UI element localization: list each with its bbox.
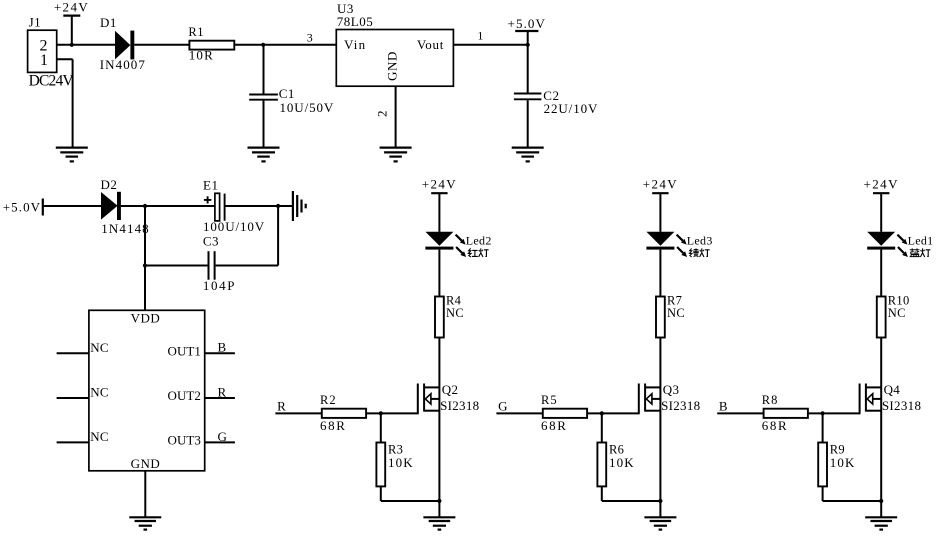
node junction C3 left bbox=[143, 263, 147, 267]
ground (U3) bbox=[380, 148, 412, 162]
node junction source/ground bbox=[879, 499, 883, 503]
wire J1 pin2 to D1 bbox=[57, 44, 115, 46]
power +5.0V terminal bbox=[3, 199, 43, 216]
svg-text:78L05: 78L05 bbox=[337, 14, 373, 29]
wire IC GND to ground bbox=[144, 471, 146, 517]
svg-text:Q4: Q4 bbox=[884, 382, 901, 397]
node junction gate/pulldown bbox=[379, 411, 383, 415]
ground (IC) bbox=[129, 517, 161, 529]
svg-text:+24V: +24V bbox=[864, 177, 899, 192]
svg-text:NC: NC bbox=[446, 306, 464, 320]
wire R8 to gate bbox=[808, 412, 861, 414]
svg-text:Led3: Led3 bbox=[687, 233, 713, 247]
node junction gate/pulldown bbox=[600, 411, 604, 415]
svg-text:R: R bbox=[277, 399, 286, 414]
wire junction to R3 bbox=[380, 413, 382, 442]
transistor Q2 SI2318 bbox=[418, 382, 459, 414]
wire junction to R9 bbox=[822, 413, 824, 442]
wire E1 to ground bbox=[225, 205, 292, 207]
wire LED to Rd bbox=[659, 250, 661, 297]
wire LED to Rd bbox=[880, 250, 882, 297]
wire D1 to R1 bbox=[134, 44, 189, 46]
resistor R2 bbox=[320, 393, 366, 418]
svg-text:10R: 10R bbox=[189, 48, 214, 63]
wire to ground bbox=[659, 501, 661, 517]
svg-text:Led2: Led2 bbox=[466, 233, 492, 247]
svg-text:R2: R2 bbox=[320, 393, 337, 407]
svg-text:B: B bbox=[218, 340, 227, 355]
svg-text:R8: R8 bbox=[762, 393, 779, 407]
regulator U3 78L05 bbox=[336, 1, 453, 86]
svg-text:OUT3: OUT3 bbox=[168, 433, 201, 448]
resistor R8 bbox=[762, 393, 808, 418]
svg-text:R4: R4 bbox=[446, 293, 462, 307]
svg-text:Q3: Q3 bbox=[663, 382, 680, 397]
svg-text:+5.0V: +5.0V bbox=[508, 16, 546, 31]
svg-text:10U/50V: 10U/50V bbox=[280, 100, 335, 115]
wire R5 to gate bbox=[587, 412, 640, 414]
ground (J1) bbox=[56, 148, 88, 162]
ground (C2) bbox=[512, 148, 544, 162]
wire R9 to source rail bbox=[823, 486, 882, 501]
capacitor C1 bbox=[249, 45, 295, 148]
svg-text:D2: D2 bbox=[101, 177, 118, 192]
LED Led3 bbox=[646, 232, 674, 250]
svg-text:100U/10V: 100U/10V bbox=[203, 219, 265, 234]
wire to ground bbox=[438, 501, 440, 517]
svg-text:DC24V: DC24V bbox=[29, 72, 75, 89]
diode D2 bbox=[101, 177, 121, 220]
svg-text:SI2318: SI2318 bbox=[882, 398, 921, 413]
wire C3 to E1 right node bbox=[216, 206, 279, 266]
ground (C1) bbox=[248, 148, 280, 162]
svg-text:+5.0V: +5.0V bbox=[3, 200, 41, 215]
resistor R10 bbox=[877, 293, 910, 337]
power +24V (J1 area) bbox=[54, 0, 89, 45]
svg-text:+24V: +24V bbox=[422, 177, 457, 192]
svg-text:1N4148: 1N4148 bbox=[101, 221, 150, 236]
svg-text:68R: 68R bbox=[541, 418, 567, 433]
ground (Q3) bbox=[644, 517, 676, 529]
svg-text:104P: 104P bbox=[203, 278, 236, 293]
wire U3 GND pin 2 to ground bbox=[375, 86, 396, 147]
LED Led2 bbox=[425, 232, 453, 250]
resistor R4 bbox=[435, 293, 462, 337]
svg-text:GND: GND bbox=[384, 51, 399, 81]
svg-text:R: R bbox=[218, 384, 227, 399]
power +5.0V bbox=[508, 16, 546, 45]
node junction D2/E1/C3 bbox=[143, 204, 147, 208]
svg-text:NC: NC bbox=[90, 340, 109, 355]
transistor Q3 SI2318 bbox=[639, 382, 680, 414]
capacitor C3 bbox=[203, 234, 219, 280]
svg-text:C3: C3 bbox=[203, 234, 219, 249]
svg-text:10K: 10K bbox=[609, 455, 635, 470]
wire R1 to U3 Vin bbox=[234, 44, 336, 46]
svg-text:R1: R1 bbox=[188, 25, 204, 39]
wire R7 to drain/source rail bbox=[659, 338, 661, 502]
pin OUT2 / net R bbox=[168, 384, 235, 403]
LED Led1 bbox=[867, 232, 895, 250]
wire R10 to drain/source rail bbox=[880, 338, 882, 502]
wire input to R2 bbox=[275, 412, 321, 414]
pin NC 2 bbox=[57, 385, 109, 400]
svg-text:1: 1 bbox=[477, 28, 483, 42]
svg-text:SI2318: SI2318 bbox=[440, 398, 479, 413]
node junction gate/pulldown bbox=[821, 411, 825, 415]
svg-text:G: G bbox=[218, 429, 227, 444]
IC U? (driver) bbox=[89, 310, 205, 471]
wire C3 branch down bbox=[144, 206, 146, 266]
svg-text:Vout: Vout bbox=[417, 37, 444, 52]
wire R6 to source rail bbox=[602, 486, 661, 501]
resistor R5 bbox=[541, 393, 587, 418]
ground (rotated, E1) bbox=[293, 191, 306, 221]
resistor R7 bbox=[656, 293, 682, 337]
resistor R6 bbox=[597, 443, 624, 487]
diode D1 bbox=[100, 15, 134, 59]
svg-text:3: 3 bbox=[307, 31, 313, 45]
wire to ground bbox=[880, 501, 882, 517]
pin OUT1 / net B bbox=[168, 340, 235, 359]
svg-text:10K: 10K bbox=[830, 455, 856, 470]
svg-text:SI2318: SI2318 bbox=[661, 398, 700, 413]
wire input to R5 bbox=[496, 412, 542, 414]
node junction source/ground bbox=[658, 499, 662, 503]
LED emission arrows bbox=[897, 235, 908, 257]
ground (Q4) bbox=[865, 517, 897, 529]
wire D2 to E1 bbox=[121, 205, 215, 207]
wire to C3 bbox=[145, 265, 208, 267]
connector J1 bbox=[28, 15, 57, 73]
svg-text:Vin: Vin bbox=[344, 37, 366, 52]
svg-text:J1: J1 bbox=[29, 15, 42, 30]
power +24V (Q3 branch) bbox=[643, 177, 678, 232]
svg-text:68R: 68R bbox=[762, 418, 788, 433]
svg-text:B: B bbox=[719, 399, 728, 414]
pin OUT3 / net G bbox=[168, 429, 235, 448]
svg-text:10K: 10K bbox=[388, 455, 414, 470]
wire VDD bbox=[144, 266, 146, 311]
power +24V (Q2 branch) bbox=[422, 177, 457, 232]
svg-text:G: G bbox=[498, 399, 507, 414]
svg-text:OUT1: OUT1 bbox=[168, 343, 201, 358]
resistor R1 bbox=[188, 25, 234, 50]
svg-text:GND: GND bbox=[131, 456, 161, 471]
svg-text:68R: 68R bbox=[320, 418, 346, 433]
node junction source/ground bbox=[437, 499, 441, 503]
svg-text:22U/10V: 22U/10V bbox=[544, 101, 599, 116]
power +24V (Q4 branch) bbox=[864, 177, 899, 232]
svg-text:VDD: VDD bbox=[131, 310, 161, 325]
svg-text:R7: R7 bbox=[667, 293, 682, 307]
svg-text:R10: R10 bbox=[888, 293, 910, 307]
svg-text:2: 2 bbox=[375, 110, 390, 117]
resistor R9 bbox=[818, 443, 845, 487]
LED emission arrows bbox=[456, 235, 467, 257]
node junction +24V tap bbox=[70, 43, 74, 47]
wire R3 to source rail bbox=[381, 486, 440, 501]
wire R2 to gate bbox=[366, 412, 419, 414]
transistor Q4 SI2318 bbox=[860, 382, 901, 414]
svg-text:C1: C1 bbox=[279, 86, 295, 101]
resistor R3 bbox=[376, 443, 403, 487]
node 3 bbox=[261, 31, 313, 47]
svg-text:Q2: Q2 bbox=[442, 382, 459, 397]
label lamp color (CJK) bbox=[910, 248, 931, 257]
wire input to R8 bbox=[717, 412, 763, 414]
node junction +5V tap bbox=[526, 43, 530, 47]
svg-text:NC: NC bbox=[90, 429, 109, 444]
svg-text:NC: NC bbox=[667, 306, 685, 320]
capacitor C2 bbox=[514, 45, 560, 148]
ground (Q2) bbox=[423, 517, 455, 529]
pin NC 1 bbox=[57, 340, 109, 355]
wire LED to Rd bbox=[438, 250, 440, 297]
node junction E1 right bbox=[276, 204, 280, 208]
pin NC 3 bbox=[57, 429, 109, 444]
svg-text:D1: D1 bbox=[100, 15, 117, 30]
wire R4 to drain/source rail bbox=[438, 338, 440, 502]
LED emission arrows bbox=[677, 235, 688, 257]
label lamp color (CJK) bbox=[689, 248, 709, 257]
label lamp color (CJK) bbox=[468, 248, 488, 257]
svg-text:NC: NC bbox=[90, 385, 109, 400]
svg-text:+24V: +24V bbox=[643, 177, 678, 192]
svg-text:Led1: Led1 bbox=[908, 233, 934, 247]
wire J1 pin1 to ground bbox=[57, 59, 73, 147]
svg-text:+24V: +24V bbox=[54, 0, 89, 14]
capacitor E1 (electrolytic) bbox=[203, 178, 225, 221]
svg-text:E1: E1 bbox=[203, 178, 218, 193]
svg-text:1: 1 bbox=[40, 52, 48, 69]
svg-text:IN4007: IN4007 bbox=[100, 57, 146, 72]
svg-text:OUT2: OUT2 bbox=[168, 388, 201, 403]
wire U3 Vout pin 1 to +5.0V node bbox=[453, 28, 527, 45]
wire junction to R6 bbox=[601, 413, 603, 442]
svg-text:R5: R5 bbox=[541, 393, 558, 407]
wire +5.0V to D2 bbox=[43, 205, 101, 207]
svg-text:NC: NC bbox=[888, 306, 906, 320]
